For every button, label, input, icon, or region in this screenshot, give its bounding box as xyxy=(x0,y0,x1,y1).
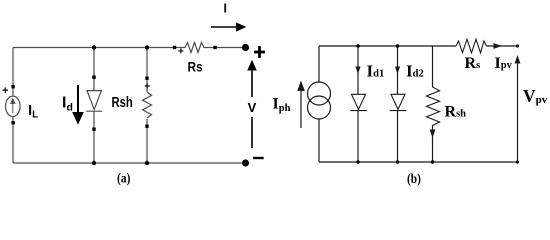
junction dot bottom Rsh branch xyxy=(145,161,149,165)
node square IL top xyxy=(11,85,14,88)
wire Rsh branch xyxy=(146,48,148,93)
junction dot diode1 bottom xyxy=(356,160,359,163)
current source IL inner arrow xyxy=(11,99,15,113)
wire left branch Iph xyxy=(318,46,320,83)
resistor Rs (b) zigzag xyxy=(456,39,487,53)
svg-text:Iph: Iph xyxy=(273,96,291,115)
node dot top right xyxy=(516,44,519,47)
wire diode1 branch xyxy=(357,46,359,95)
Vpv arrowhead up xyxy=(515,55,521,64)
junction dot diode2 bottom xyxy=(396,160,399,163)
svg-text:Ipv: Ipv xyxy=(495,55,513,72)
wire diode2 branch xyxy=(397,46,399,95)
resistor Rs (a) zigzag xyxy=(175,43,216,53)
svg-text:Rsh: Rsh xyxy=(445,104,467,121)
V arrow up xyxy=(248,61,256,97)
svg-text:+: + xyxy=(178,47,184,58)
current arrow I xyxy=(211,23,245,31)
node square Rsh bottom xyxy=(145,125,148,128)
wire Rsh branch (b) xyxy=(432,46,434,87)
svg-text:Id2: Id2 xyxy=(406,61,424,80)
svg-text:(b): (b) xyxy=(407,172,421,187)
junction dot top diode branch xyxy=(92,45,96,49)
svg-text:IL: IL xyxy=(28,102,38,121)
node square Rs left xyxy=(173,46,176,49)
wire top after Rs xyxy=(487,45,518,47)
svg-text:Rs: Rs xyxy=(465,55,481,72)
diode D (a) xyxy=(86,91,102,112)
junction dot top Rsh branch xyxy=(145,45,149,49)
svg-text:(a): (a) xyxy=(117,172,131,187)
wire bottom (b) xyxy=(319,161,518,163)
V lower line xyxy=(251,117,253,148)
svg-text:+: + xyxy=(144,81,150,92)
wire diode branch xyxy=(93,48,95,91)
current source IL circle xyxy=(6,96,21,116)
terminal dot + (a) xyxy=(242,44,249,51)
resistor Rsh (a) zigzag xyxy=(143,92,152,118)
node square diode bottom xyxy=(92,128,95,131)
wire top right to + terminal xyxy=(215,47,246,49)
svg-text:Id: Id xyxy=(62,95,73,114)
junction dot diode1 top xyxy=(356,44,360,48)
Rsh wire arrowhead xyxy=(430,130,436,139)
wire left branch xyxy=(12,48,14,97)
node square IL bottom xyxy=(11,121,14,124)
Iph current arrow xyxy=(298,82,304,128)
svg-text:Rsh: Rsh xyxy=(112,94,133,111)
svg-text:Id1: Id1 xyxy=(367,61,385,80)
svg-text:V: V xyxy=(248,100,257,115)
node square Rsh top xyxy=(145,77,148,80)
node square Rs right xyxy=(213,46,216,49)
Id current arrow xyxy=(73,85,83,124)
wire top (a) xyxy=(13,47,174,49)
label + terminal xyxy=(254,46,265,58)
node square diode top xyxy=(92,76,95,79)
junction dot bottom diode branch xyxy=(92,161,96,165)
diode D2 (b) xyxy=(390,94,407,110)
wire Vpv right xyxy=(517,62,519,162)
wire top (b) xyxy=(319,45,456,47)
diode D1 (b) xyxy=(350,94,367,110)
junction dot diode2 top xyxy=(396,44,400,48)
node dot bottom right xyxy=(516,160,519,163)
Id2 wire arrowhead xyxy=(395,67,400,75)
current source Iph circles xyxy=(308,82,331,105)
svg-text:Rs: Rs xyxy=(188,59,203,75)
label - terminal xyxy=(253,157,264,159)
resistor Rsh (b) zigzag xyxy=(427,87,440,129)
svg-text:+: + xyxy=(2,85,8,97)
svg-text:Vpv: Vpv xyxy=(523,86,548,106)
terminal dot - (a) xyxy=(242,159,249,166)
junction dot Rsh bottom (b) xyxy=(431,160,434,163)
Ipv wire arrowhead xyxy=(494,43,503,49)
wire bottom (a) xyxy=(13,162,246,164)
Id1 wire arrowhead xyxy=(355,67,360,75)
svg-text:I: I xyxy=(224,1,227,15)
